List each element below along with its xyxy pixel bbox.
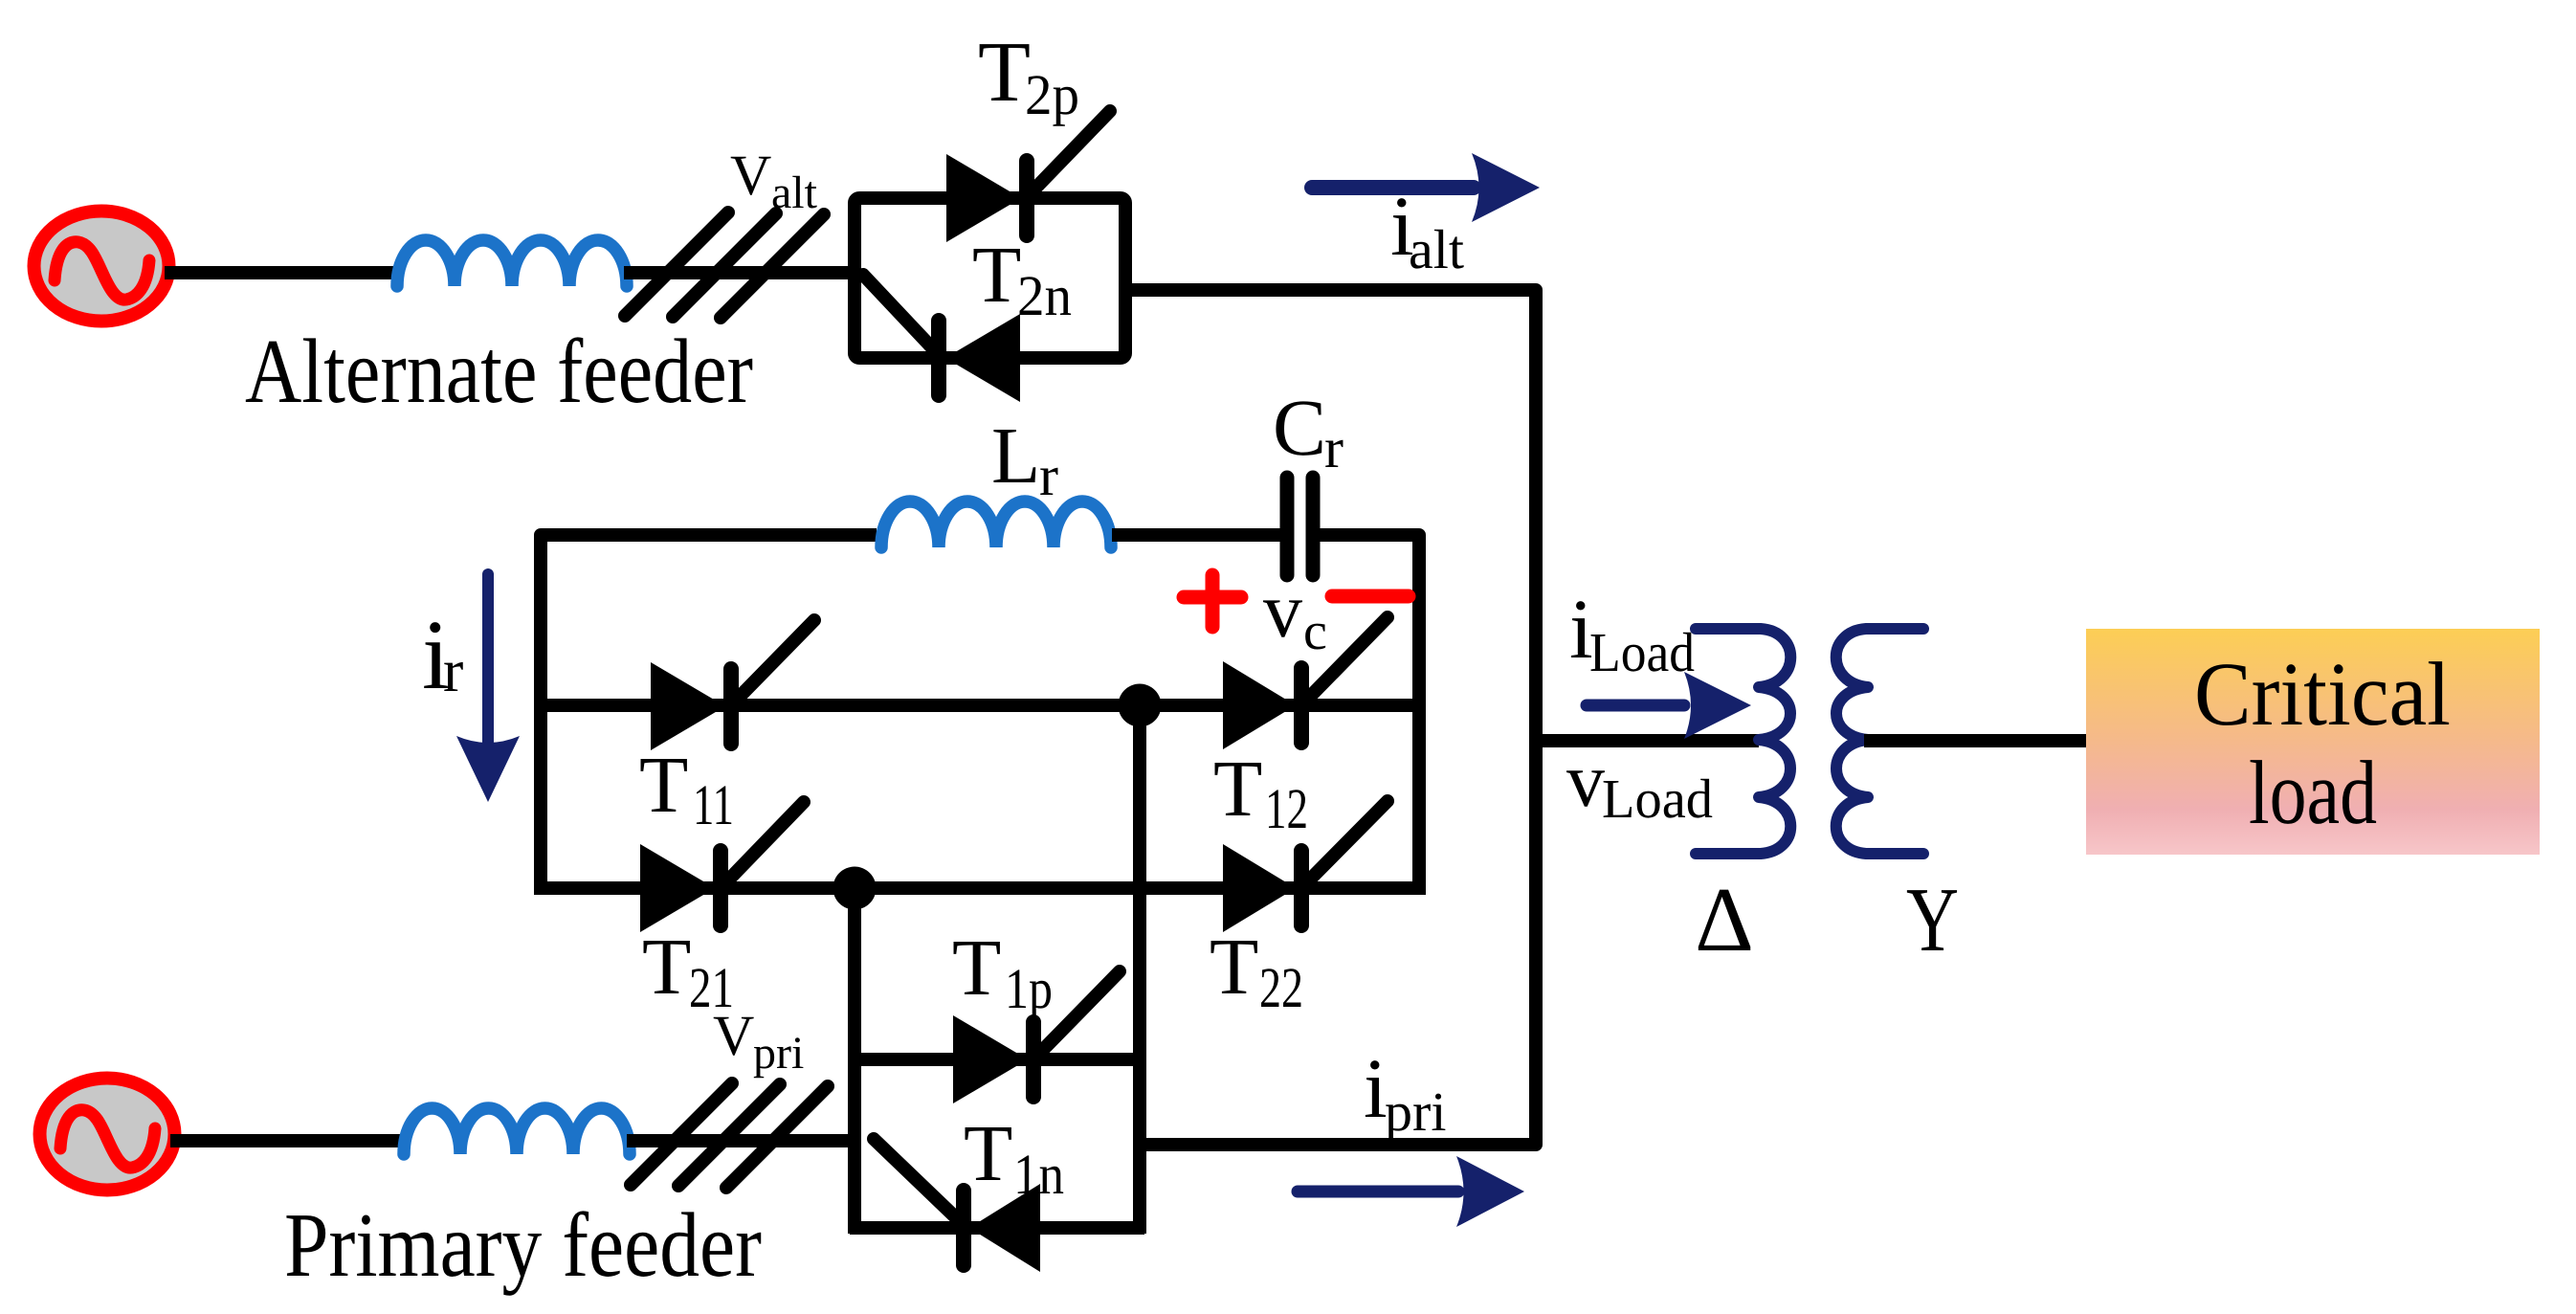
- transformer delta winding: [1696, 629, 1790, 854]
- label Vc: [1263, 567, 1327, 661]
- label Cr: [1273, 384, 1344, 479]
- wire Lr to Cr: [1112, 528, 1280, 542]
- label T1n: [964, 1109, 1064, 1206]
- label i_pri: [1364, 1042, 1446, 1143]
- thyristor T1n: [874, 1139, 1040, 1272]
- svg-text:r: r: [1324, 416, 1344, 479]
- svg-text:Load: Load: [1589, 621, 1695, 683]
- thyristor T12: [1223, 617, 1388, 749]
- label T12: [1213, 745, 1308, 840]
- arrow i_alt: [1312, 153, 1540, 222]
- wire Cr to right corner, right edge down: [1319, 535, 1419, 888]
- label T2n: [972, 231, 1072, 327]
- thyristor T1p: [953, 971, 1120, 1103]
- junction node dot on lower line: [833, 867, 877, 910]
- AC source primary feeder: [40, 1079, 175, 1191]
- label i_Load: [1569, 583, 1695, 683]
- svg-text:T: T: [978, 25, 1031, 120]
- wire from middle-line node down T1 box right edge: [1133, 705, 1146, 1234]
- svg-text:Δ: Δ: [1695, 868, 1754, 970]
- 3-phase slashes alternate feeder: [625, 212, 824, 318]
- T2 thyristor box: [855, 198, 1125, 358]
- svg-text:Load: Load: [1602, 768, 1713, 830]
- arrow i_pri: [1298, 1156, 1524, 1227]
- wire transformer to critical load: [1864, 734, 2086, 747]
- red minus sign: [1332, 590, 1409, 604]
- svg-text:T: T: [1213, 745, 1262, 834]
- label T21: [642, 923, 734, 1019]
- svg-text:L: L: [991, 412, 1040, 501]
- svg-text:T: T: [642, 923, 691, 1012]
- svg-text:T: T: [639, 741, 688, 830]
- arrow i_Load: [1587, 672, 1751, 739]
- svg-text:T: T: [1210, 923, 1258, 1012]
- middle line of resonant loop: [541, 699, 1419, 712]
- svg-text:pri: pri: [753, 1028, 804, 1079]
- svg-text:pri: pri: [1385, 1080, 1446, 1143]
- T1p branch wire: [855, 1053, 1140, 1066]
- thyristor T21: [640, 802, 804, 932]
- bottom line of resonant loop: [534, 881, 1426, 895]
- thyristor T2n: [863, 275, 1020, 402]
- 3-phase slashes primary feeder: [631, 1083, 828, 1188]
- arrow i_r: [456, 574, 520, 802]
- wire inductor to T2 box: [624, 266, 855, 279]
- svg-text:T: T: [964, 1109, 1012, 1198]
- wire primary feeder to inductor: [170, 1134, 401, 1147]
- label V_pri: [713, 1004, 804, 1079]
- svg-text:alt: alt: [1409, 218, 1464, 280]
- critical load box: [2086, 629, 2540, 855]
- svg-text:c: c: [1303, 602, 1327, 661]
- resonant loop left and top wire: [541, 535, 877, 888]
- wire T2 box to bus, bus down, i_pri return: [1125, 290, 1536, 1145]
- thyristor T11: [651, 620, 814, 750]
- svg-text:r: r: [443, 636, 463, 704]
- svg-text:2n: 2n: [1017, 264, 1072, 327]
- svg-text:r: r: [1039, 444, 1058, 507]
- wire feeder alt to inductor: [165, 266, 394, 279]
- thyristor T22: [1223, 801, 1388, 932]
- wire bus to transformer: [1536, 734, 1759, 747]
- AC source alternate feeder: [34, 212, 169, 322]
- label i_r: [422, 600, 463, 710]
- thyristor T2p: [946, 111, 1110, 242]
- svg-text:v: v: [1263, 567, 1302, 654]
- junction node dot on middle line: [1119, 684, 1162, 727]
- svg-text:Primary feeder: Primary feeder: [284, 1193, 762, 1296]
- label Lr: [991, 412, 1058, 507]
- svg-text:load: load: [2249, 742, 2377, 843]
- label V_alt: [730, 144, 818, 218]
- svg-text:Y: Y: [1906, 868, 1959, 970]
- label v_Load: [1566, 739, 1713, 830]
- label i_alt: [1390, 180, 1464, 280]
- svg-text:v: v: [1566, 739, 1605, 823]
- label Critical load: [2194, 643, 2451, 843]
- capacitor Cr: [1287, 478, 1313, 575]
- T1n branch wire: [850, 1221, 1144, 1235]
- wire from lower-line node down T1 box left edge: [848, 888, 861, 1234]
- label T11: [639, 741, 734, 836]
- svg-text:12: 12: [1265, 777, 1308, 840]
- label T1p: [952, 924, 1053, 1020]
- svg-text:V: V: [713, 1004, 754, 1067]
- svg-text:T: T: [952, 924, 1001, 1013]
- svg-text:V: V: [730, 144, 771, 207]
- inductor primary feeder: [404, 1108, 630, 1154]
- svg-text:C: C: [1273, 384, 1326, 473]
- red plus sign: [1184, 575, 1241, 627]
- svg-text:1n: 1n: [1013, 1143, 1064, 1206]
- inductor Lr: [881, 501, 1111, 547]
- svg-text:alt: alt: [771, 167, 818, 218]
- label T2p: [978, 25, 1079, 126]
- wire inductor to T1 box: [627, 1134, 855, 1147]
- transformer wye winding: [1836, 629, 1923, 854]
- svg-text:22: 22: [1259, 956, 1303, 1019]
- svg-text:1p: 1p: [1005, 957, 1053, 1020]
- svg-text:Critical: Critical: [2194, 643, 2451, 745]
- svg-text:11: 11: [693, 773, 734, 836]
- label T22: [1210, 923, 1303, 1019]
- svg-text:2p: 2p: [1025, 63, 1079, 126]
- svg-text:Alternate feeder: Alternate feeder: [245, 320, 753, 422]
- svg-text:T: T: [972, 231, 1021, 320]
- inductor alternate feeder: [397, 240, 627, 286]
